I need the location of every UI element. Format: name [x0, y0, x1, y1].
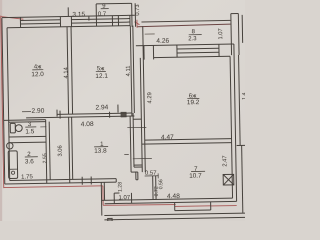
left inner wall: [7, 28, 10, 181]
0.57 dim line: [145, 175, 159, 177]
room6 left wall: [143, 46, 145, 172]
svg-text:1.5: 1.5: [25, 128, 34, 135]
red top-left diagonal stub: [1, 16, 24, 19]
svg-text:0.73: 0.73: [135, 4, 141, 15]
door jamb block: [121, 112, 126, 116]
balcony 8 inner parapet line: [141, 20, 230, 22]
svg-text:1.07: 1.07: [218, 28, 224, 39]
svg-text:12.1: 12.1: [95, 73, 108, 80]
landing notch: [108, 218, 112, 221]
window glazing room5: [71, 19, 129, 20]
apartment bottom wall left: [5, 182, 116, 184]
balcony 8 left wall: [142, 26, 144, 45]
svg-text:4.11: 4.11: [126, 65, 132, 76]
svg-text:3.15: 3.15: [72, 11, 85, 18]
entrance door jambs: [113, 193, 115, 203]
svg-text:1.4: 1.4: [242, 92, 245, 99]
2.90 dim line stub: [22, 111, 31, 113]
room6 bottom wall: [145, 139, 232, 141]
room6 window jambs: [176, 45, 178, 57]
svg-text:2.55: 2.55: [42, 153, 48, 163]
red segment window to wall: [211, 205, 237, 207]
room6 balcony door jambs: [143, 46, 145, 60]
bottom wall end edge: [115, 179, 117, 182]
hall top wall upper line: [57, 113, 132, 114]
svg-text:10.7: 10.7: [189, 173, 202, 180]
small dash mark: [124, 153, 128, 155]
dim tick right of 3.15: [88, 17, 90, 21]
top outer wall: [2, 15, 135, 17]
red tick at balcony start: [136, 20, 138, 28]
neighbour wall right: [239, 55, 241, 145]
hall right wall pair: [129, 116, 132, 172]
svg-text:4.14: 4.14: [64, 66, 70, 78]
svg-text:2.90: 2.90: [31, 108, 44, 115]
right wall inner: [230, 56, 232, 198]
neighbour horizontal: [237, 144, 246, 146]
dim tick above divider: [67, 7, 69, 16]
red kitchen window mid line: [175, 205, 211, 208]
svg-text:4.29: 4.29: [147, 92, 153, 103]
window jambs top wall: [19, 17, 21, 27]
red left edge line: [1, 16, 4, 188]
WC door dash: [40, 126, 46, 128]
WC bottom / bath top walls: [9, 135, 46, 138]
top inner wall: [7, 26, 130, 28]
red bottom line left: [4, 186, 103, 188]
svg-text:4.26: 4.26: [156, 38, 169, 45]
neighbour vertical lower: [242, 145, 243, 212]
room4/5 divider wall: [67, 27, 69, 114]
bathtub: [8, 151, 17, 179]
svg-text:4.48: 4.48: [167, 193, 180, 200]
window glazing room4: [20, 19, 60, 22]
WC/bath right wall pair: [46, 120, 47, 184]
svg-text:19.2: 19.2: [187, 99, 200, 106]
svg-text:3.6: 3.6: [25, 158, 34, 165]
red boundary lines: [1, 12, 237, 210]
hall left wall pair: [69, 117, 70, 183]
rotated dim texts: [40, 3, 250, 199]
kitchen window band: [175, 209, 211, 212]
right wall outer: [234, 44, 237, 201]
svg-text:1.07: 1.07: [118, 195, 130, 201]
red balcony8 parapet: [137, 24, 231, 27]
WC top wall: [4, 119, 46, 122]
svg-text:0.72: 0.72: [154, 186, 160, 196]
svg-text:0.57: 0.57: [145, 171, 157, 177]
hall/room6 door niche lines: [133, 118, 141, 120]
entry door jamb stub: [135, 172, 137, 180]
svg-text:3.06: 3.06: [58, 145, 64, 156]
step wall down to bottom: [100, 182, 103, 215]
red bottom line under kitchen: [103, 204, 175, 206]
left outer wall: [2, 18, 5, 184]
toilet: [10, 123, 15, 133]
bath sink circle: [7, 143, 14, 150]
svg-text:2.94: 2.94: [95, 104, 108, 111]
hall top wall lower line: [26, 116, 134, 118]
small shelf line: [145, 33, 155, 35]
door jamb ticks hall top: [59, 111, 61, 119]
dim ticks bottom wall: [81, 177, 83, 185]
svg-text:1.75: 1.75: [21, 174, 33, 180]
svg-text:4.08: 4.08: [81, 121, 94, 128]
far right edge stub: [241, 15, 243, 43]
balcony 9 right wall pair: [131, 3, 133, 26]
svg-text:13.8: 13.8: [94, 148, 107, 155]
entry lower jog: [131, 171, 138, 173]
room5 right wall pair: [130, 26, 132, 116]
0.57 dim end tick: [157, 173, 159, 178]
room6 top wall outer: [136, 44, 234, 46]
red step vertical: [102, 186, 104, 205]
balcony 8 column right: [230, 14, 233, 55]
darker left scan edge: [0, 0, 2, 221]
svg-text:2.3: 2.3: [188, 36, 197, 42]
room6 top wall inner: [154, 56, 230, 57]
svg-text:2.47: 2.47: [222, 155, 228, 166]
paper background: [0, 0, 245, 221]
svg-text:4.47: 4.47: [161, 134, 174, 141]
kitchen door dim line: [133, 157, 152, 159]
entry jog to kitchen wall: [134, 164, 142, 166]
fraction lines: [22, 7, 205, 174]
vent shaft box: [223, 174, 234, 185]
svg-text:1.28: 1.28: [117, 182, 123, 192]
svg-text:0.7: 0.7: [98, 12, 107, 18]
room6 window glazing: [177, 47, 219, 50]
lower landing lines: [104, 213, 246, 215]
bottom exterior wall kitchen: [102, 198, 233, 200]
balcony 9 outline: [96, 2, 131, 5]
kitchen left wall lower piece: [152, 176, 154, 199]
svg-text:12.0: 12.0: [31, 71, 44, 78]
